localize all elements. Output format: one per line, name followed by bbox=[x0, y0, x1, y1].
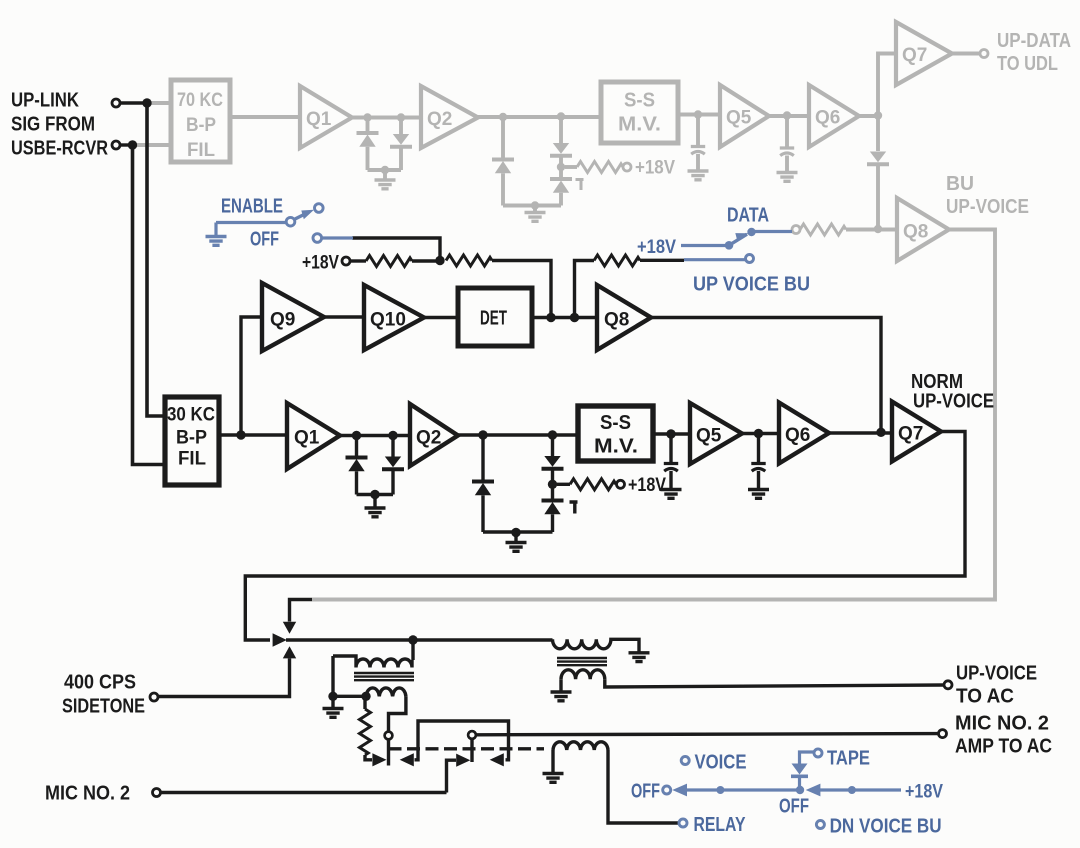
svg-text:400 CPS: 400 CPS bbox=[64, 672, 136, 694]
svg-text:Q5: Q5 bbox=[726, 108, 752, 129]
terminal: 400 CPS sidetone input bbox=[150, 693, 158, 701]
wire: input 2 to junction bbox=[120, 143, 133, 146]
wire: clamp bottom rail (gray) bbox=[503, 204, 561, 208]
terminal: +18V supply (enable row) bbox=[342, 257, 350, 265]
wire: S-S M.V. output to Q5 bbox=[678, 113, 720, 117]
svg-text:Q2: Q2 bbox=[427, 109, 452, 130]
amplifier Q6 (30KC chain) bbox=[779, 403, 829, 464]
wire: MIC NO.2 input run bbox=[161, 791, 447, 794]
node: clamp rail junction (gray) bbox=[531, 201, 539, 209]
svg-text:MIC NO. 2: MIC NO. 2 bbox=[45, 783, 130, 805]
switch S1 ENABLE contact bbox=[315, 204, 324, 213]
arrow: bridge wiper at K2 (left) bbox=[490, 753, 504, 766]
svg-text:M.V.: M.V. bbox=[618, 114, 661, 136]
resistor sidetone level (vertical) bbox=[363, 696, 366, 709]
wire: K2 to MIC NO.2 AMP TO AC terminal bbox=[476, 734, 939, 735]
wire: Q7 output return loop to mixing node bbox=[245, 432, 965, 641]
capacitor bypass after Q5 bbox=[757, 434, 760, 463]
svg-text:M.V.: M.V. bbox=[594, 436, 638, 458]
diode to rail after Q2 bbox=[481, 435, 484, 481]
terminal: UP-VOICE TO AC bbox=[944, 681, 952, 689]
wire: 30KC output to Q1 bbox=[219, 433, 287, 436]
switch S2 DATA contact bbox=[747, 228, 755, 236]
amplifier Q7 (NORM UP-VOICE) bbox=[892, 402, 941, 462]
ground: cap 1 ground bbox=[661, 490, 682, 499]
wire: Q2 output to S-S M.V. bbox=[458, 433, 578, 436]
ground: cap 1 ground (gray) bbox=[688, 171, 709, 180]
svg-text:SIG FROM: SIG FROM bbox=[11, 114, 95, 136]
ground: Q1 clipper ground (gray) bbox=[383, 170, 387, 180]
resistor R data feed bbox=[594, 255, 640, 266]
arrow: sidetone into node (up) bbox=[283, 646, 296, 658]
svg-text:UP VOICE BU: UP VOICE BU bbox=[693, 274, 810, 296]
amplifier Q1 (30KC chain) bbox=[287, 403, 340, 469]
node: mode bus dot 1 bbox=[716, 786, 724, 794]
resistor R enable 2 bbox=[446, 255, 492, 266]
capacitor bypass after Q5 (gray) bbox=[785, 116, 789, 147]
wire: DET junction B up to DATA row resistor bbox=[575, 261, 595, 318]
wire: junction up to Q9 input bbox=[241, 317, 262, 435]
node: junction at S-S MV input branch bbox=[548, 430, 557, 439]
wire: junction to Q8 input (gray) bbox=[878, 228, 897, 232]
node: gray junction at diode clipper left bbox=[363, 113, 371, 121]
node: junction under Q2 output (gray) bbox=[499, 113, 507, 121]
wire: input 1 to junction bbox=[120, 101, 147, 104]
capacitor bypass after S-S MV bbox=[669, 434, 672, 462]
node: input 2 junction bbox=[128, 140, 137, 149]
node: input 1 junction bbox=[142, 98, 151, 107]
amplifier Q5 (gray chain) bbox=[720, 85, 769, 147]
arrow: norm up-voice into node (right) bbox=[273, 633, 287, 646]
svg-text:UP-LINK: UP-LINK bbox=[11, 90, 79, 112]
transformer T1 primary winding bbox=[333, 640, 413, 668]
resistor to +18V (30KC clamp) bbox=[557, 483, 570, 486]
svg-text:FIL: FIL bbox=[178, 449, 206, 470]
diode to ground after Q2 (gray) bbox=[501, 117, 505, 159]
svg-text:S-S: S-S bbox=[600, 412, 631, 434]
wire: MIC NO.2 up to wiper 2 bbox=[447, 760, 457, 792]
wire: DET output to Q8 bbox=[532, 316, 597, 319]
contact K1 fixed terminal bbox=[385, 732, 393, 740]
svg-text:B-P: B-P bbox=[176, 428, 207, 449]
switch S3 TAPE contact bbox=[814, 749, 822, 757]
node: T1 secondary left junction bbox=[361, 692, 370, 701]
svg-text:VOICE: VOICE bbox=[695, 752, 747, 774]
svg-text:Q6: Q6 bbox=[785, 425, 810, 446]
terminal: RELAY (blue) bbox=[679, 819, 687, 827]
ground: relay coil ground bbox=[551, 750, 554, 773]
svg-text:30 KC: 30 KC bbox=[167, 405, 215, 426]
diode CR-down upper of +18V clamp (gray) bbox=[559, 117, 563, 144]
diode CR-up lower of clamp (gray) bbox=[550, 179, 572, 193]
ground: clamp ground bbox=[514, 533, 517, 543]
node: Q8 input junction (gray) bbox=[874, 225, 882, 233]
wire: resistor to blue DATA contact bbox=[640, 259, 684, 262]
wire: UP VOICE BU contact feed (blue) bbox=[684, 258, 746, 261]
wire: branch up to Q7 input (gray) bbox=[878, 54, 896, 116]
filter block 30 KC B-P FIL bbox=[165, 397, 219, 485]
mechanical gang line (dashed) to relay bbox=[389, 747, 545, 750]
wire: OFF contact feed (blue) bbox=[322, 236, 353, 239]
wire: R2 to DET junction A bbox=[492, 261, 551, 318]
wire: Q10 to DET bbox=[424, 316, 458, 319]
svg-text:TO AC: TO AC bbox=[956, 686, 1014, 708]
arrow: bridge wiper at K1 (left) bbox=[400, 753, 414, 766]
amplifier Q8 (voice detect) bbox=[597, 285, 651, 350]
multivibrator block S-S M.V. (30KC chain) bbox=[578, 406, 653, 461]
terminal: up-link input 2 bbox=[112, 141, 120, 149]
switch S1 ENABLE/OFF pivot bbox=[286, 217, 295, 226]
amplifier Q8 (gray chain, BU UP-VOICE) bbox=[897, 198, 949, 261]
ground: Q1 clipper ground bbox=[373, 495, 376, 508]
arrow: mode switch wiper 2 (left) bbox=[806, 784, 821, 797]
svg-text:DET: DET bbox=[480, 308, 507, 330]
svg-text:Q2: Q2 bbox=[416, 428, 441, 449]
svg-text:UP-VOICE: UP-VOICE bbox=[946, 196, 1029, 218]
transformer T2 primary winding bbox=[553, 639, 640, 652]
wire: input 2 down to 30KC filter bbox=[133, 145, 166, 465]
amplifier Q1 (gray chain) bbox=[300, 86, 352, 148]
switch bridge wire between K1 and K2 wipers bbox=[415, 721, 509, 760]
wire: 70KC FIL output to Q1 bbox=[230, 115, 300, 119]
svg-text:OFF: OFF bbox=[779, 796, 809, 818]
wire: mode bus left segment (blue) bbox=[686, 788, 797, 791]
diode CR-down of Q1 clipper pair (gray) bbox=[399, 118, 403, 135]
wire: Q1 output to Q2 bbox=[352, 116, 421, 120]
svg-text:AMP TO AC: AMP TO AC bbox=[955, 736, 1052, 758]
svg-text:DN VOICE BU: DN VOICE BU bbox=[830, 816, 942, 838]
wire: 70KC FIL input stub upper (gray) bbox=[147, 101, 171, 105]
svg-text:UP-VOICE: UP-VOICE bbox=[956, 663, 1037, 685]
svg-text:Q9: Q9 bbox=[270, 310, 295, 331]
svg-text:B-P: B-P bbox=[186, 115, 216, 136]
ground: cap 2 ground (gray) bbox=[777, 173, 798, 182]
terminal: DATA switch resistor input (gray) bbox=[792, 226, 800, 234]
diode series into Q8 input (gray) bbox=[867, 152, 889, 165]
wire: DATA contact to gray resistor (blue) bbox=[755, 230, 792, 233]
switch S2 UP VOICE BU contact bbox=[746, 255, 754, 263]
svg-text:+18V: +18V bbox=[635, 158, 675, 179]
svg-text:RELAY: RELAY bbox=[694, 814, 747, 836]
terminal: UP-DATA TO UDL output bbox=[980, 50, 988, 58]
wire: input 1 down to 30KC filter bbox=[147, 103, 165, 416]
wire: Q9 to Q10 bbox=[324, 315, 364, 318]
wire: T1 secondary right to contact K1 bbox=[389, 696, 406, 732]
amplifier Q9 bbox=[262, 283, 324, 351]
wire: Q7 output to UP-DATA terminal bbox=[952, 52, 980, 56]
wire: ENABLE switch feed over to junction bbox=[352, 238, 440, 260]
node: transformer T1 primary tap bbox=[408, 635, 417, 644]
wire: Q1 output to Q2 bbox=[340, 434, 410, 437]
svg-text:DATA: DATA bbox=[727, 205, 769, 227]
relay coil RY1 bbox=[553, 742, 608, 750]
terminal: up-link input 1 bbox=[112, 99, 120, 107]
svg-text:UP-DATA: UP-DATA bbox=[997, 30, 1071, 52]
amplifier Q6 (gray chain) bbox=[809, 85, 859, 147]
capacitor bypass after S-S MV (gray) bbox=[696, 115, 700, 146]
transformer T2 core bbox=[557, 658, 607, 665]
terminal: DN VOICE BU (blue) bbox=[816, 821, 824, 829]
diode mode select (blue) bbox=[798, 778, 801, 791]
wire: clipper bottom rail bbox=[357, 493, 394, 496]
node: clipper rail junction (gray) bbox=[381, 166, 389, 174]
wire: Q6 output to Q7/Q8 branch bbox=[859, 114, 878, 118]
svg-text:OFF: OFF bbox=[631, 781, 660, 803]
ground: ENABLE switch ground (blue) bbox=[214, 223, 217, 237]
node: clipper rail junction bbox=[370, 490, 379, 499]
ground: T1 ground bbox=[331, 696, 334, 708]
amplifier Q2 (30KC chain) bbox=[410, 404, 458, 466]
wire: Q2 output to S-S M.V. bbox=[478, 115, 601, 119]
wire: sidetone riser bbox=[158, 658, 290, 696]
contact K2 fixed terminal bbox=[468, 731, 476, 739]
node: gray junction at diode clipper right bbox=[397, 113, 405, 121]
multivibrator block S-S M.V. (gray) bbox=[601, 82, 678, 143]
node: mode switch center junction bbox=[796, 786, 804, 794]
polarity mark 7 (gray) bbox=[576, 180, 584, 191]
svg-text:S-S: S-S bbox=[624, 90, 655, 112]
svg-text:USBE-RCVR: USBE-RCVR bbox=[11, 138, 108, 160]
node: audio mixing node bbox=[286, 638, 553, 641]
wire: Q6 output to Q7 bbox=[829, 431, 892, 434]
terminal: +18V supply (gray) bbox=[623, 163, 631, 171]
wire: ground to ENABLE pivot (blue) bbox=[216, 221, 286, 224]
svg-text:Q6: Q6 bbox=[815, 108, 840, 129]
svg-text:Q5: Q5 bbox=[696, 426, 722, 447]
terminal: MIC NO.2 AMP TO AC bbox=[939, 730, 947, 738]
switch S3 VOICE contact bbox=[681, 757, 689, 765]
amplifier Q2 (gray chain) bbox=[421, 86, 478, 148]
node: clamp mid junction (gray) bbox=[557, 163, 565, 171]
ground: cap 2 ground bbox=[748, 490, 769, 499]
amplifier Q5 (30KC chain) bbox=[690, 403, 742, 464]
wire: T2 secondary to UP-VOICE TO AC bbox=[605, 679, 944, 687]
node: Q7 input junction bbox=[876, 428, 885, 437]
node: DET output junction B bbox=[570, 313, 579, 322]
amplifier Q10 bbox=[364, 285, 424, 350]
wire: Q5 output to Q6 bbox=[742, 432, 779, 435]
node: mode bus dot 2 bbox=[848, 786, 856, 794]
node: junction at bypass cap 2 bbox=[754, 429, 763, 438]
svg-text:SIDETONE: SIDETONE bbox=[62, 696, 145, 718]
diode CR-up lower of clamp bbox=[542, 501, 564, 515]
wire: Q8 output BU UP-VOICE return (gray) bbox=[312, 230, 995, 600]
wire: +18V to DATA pivot (blue) bbox=[681, 244, 725, 247]
ground: T2 secondary ground bbox=[559, 679, 562, 691]
svg-text:Q10: Q10 bbox=[370, 310, 406, 331]
wire: T1 ground link bbox=[333, 656, 366, 696]
resistor to +18V (gray chain) bbox=[565, 165, 577, 169]
svg-text:UP-VOICE: UP-VOICE bbox=[913, 391, 994, 413]
node: Q6 output junction (gray) bbox=[874, 111, 882, 119]
svg-text:+18V: +18V bbox=[637, 237, 676, 258]
node: junction at bypass cap 2 (gray) bbox=[783, 111, 791, 119]
node: junction under Q2 output bbox=[478, 430, 487, 439]
svg-text:BU: BU bbox=[946, 173, 974, 195]
switch S3 OFF contact bbox=[663, 786, 671, 794]
transformer T2 secondary winding bbox=[561, 670, 605, 680]
node: T1 ground junction bbox=[328, 692, 337, 701]
detector block DET bbox=[458, 288, 532, 346]
node: enable resistor junction bbox=[435, 256, 444, 265]
arrow: wiper 2 contact (right) bbox=[456, 754, 470, 767]
diode CR-down upper of +18V clamp bbox=[551, 435, 554, 456]
node: clipper junction right bbox=[388, 431, 397, 440]
svg-text:Q8: Q8 bbox=[903, 222, 928, 243]
svg-text:+18V: +18V bbox=[905, 782, 943, 803]
diode CR-up of Q1 clipper pair (gray) bbox=[366, 118, 370, 134]
wire: branch down from Q6 junction to diode (gray) bbox=[876, 116, 880, 152]
node: clamp mid junction bbox=[548, 480, 557, 489]
node: DET output junction A bbox=[546, 313, 555, 322]
svg-text:Q1: Q1 bbox=[306, 109, 332, 130]
wire: 70KC FIL input stub lower (gray) bbox=[133, 143, 172, 147]
node: junction at bypass cap 1 (gray) bbox=[694, 110, 702, 118]
node: clamp rail junction bbox=[511, 528, 520, 537]
svg-text:Q7: Q7 bbox=[898, 424, 923, 445]
svg-text:TAPE: TAPE bbox=[827, 748, 870, 770]
svg-text:FIL: FIL bbox=[187, 140, 215, 161]
diode CR-up of Q1 clipper pair bbox=[355, 436, 358, 458]
node: filter output junction bbox=[236, 430, 245, 439]
arrow: BU up-voice into node (down) bbox=[283, 622, 296, 634]
transformer T1 core bbox=[354, 673, 414, 680]
wire: S-S M.V. output to Q5 bbox=[653, 432, 690, 435]
filter block 70 KC B-P FIL bbox=[171, 80, 230, 162]
terminal: +18V supply (30KC clamp) bbox=[617, 480, 625, 488]
switch S2 arm with arrow bbox=[729, 234, 747, 245]
wire: Q5 output to Q6 bbox=[769, 114, 809, 118]
wire: Q8 output across to Q7 input junction bbox=[651, 318, 881, 433]
svg-text:+18V: +18V bbox=[302, 253, 339, 274]
svg-text:TO UDL: TO UDL bbox=[997, 53, 1058, 75]
svg-text:+18V: +18V bbox=[628, 475, 666, 496]
transformer T1 secondary winding bbox=[366, 688, 406, 696]
resistor R enable 1 bbox=[350, 259, 366, 262]
switch S1 OFF contact bbox=[313, 234, 322, 243]
node: junction at S-S MV input branch (gray) bbox=[557, 112, 565, 120]
wire: clipper bottom rail (gray) bbox=[368, 168, 402, 172]
terminal: MIC NO. 2 input bbox=[153, 789, 161, 797]
svg-text:ENABLE: ENABLE bbox=[221, 196, 283, 218]
wire: gray-to-black elbow down to mixing node bbox=[290, 600, 313, 622]
node: junction at bypass cap 1 bbox=[666, 429, 675, 438]
arrow: mode switch wiper (left) bbox=[672, 784, 687, 797]
svg-text:MIC NO. 2: MIC NO. 2 bbox=[955, 713, 1049, 735]
wire: relay coil to RELAY terminal bbox=[608, 750, 679, 823]
ground: clamp ground (gray) bbox=[533, 206, 537, 213]
ground: T2 primary ground bbox=[629, 653, 650, 662]
node: clipper junction left bbox=[352, 431, 361, 440]
wire: mode bus right segment (blue) bbox=[819, 788, 901, 791]
resistor DATA enable into Q8 (gray) bbox=[800, 224, 846, 235]
wire: clamp bottom rail bbox=[483, 530, 553, 533]
svg-text:Q7: Q7 bbox=[902, 45, 927, 66]
switch S1 arm with arrow bbox=[294, 212, 309, 220]
switch S2 DATA pivot bbox=[725, 241, 734, 250]
diode CR-down of Q1 clipper pair bbox=[391, 436, 394, 457]
polarity mark 7 bbox=[570, 502, 578, 514]
svg-text:Q1: Q1 bbox=[294, 428, 320, 449]
svg-text:OFF: OFF bbox=[250, 229, 279, 251]
svg-text:70 KC: 70 KC bbox=[177, 90, 223, 111]
arrow: wiper 1 contact (right) bbox=[372, 753, 386, 766]
amplifier Q7 (gray chain, UP-DATA) bbox=[896, 22, 952, 85]
svg-text:Q8: Q8 bbox=[604, 310, 629, 331]
